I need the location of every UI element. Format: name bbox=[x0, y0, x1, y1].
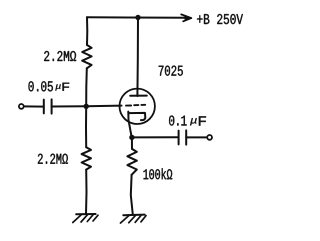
terminal output circle bbox=[207, 135, 212, 140]
label C2 value 0.1uF bbox=[169, 116, 206, 126]
power arrow to +B bbox=[181, 14, 191, 21]
tube U1 grid dashes bbox=[126, 104, 145, 107]
capacitor C1 0.05uF plates bbox=[44, 99, 52, 113]
wire input terminal to C1 bbox=[24, 105, 44, 107]
wire cathode junction to C2 bbox=[132, 136, 179, 138]
wire C1 to input junction bbox=[52, 105, 87, 107]
wire left vertical from rail to R1 bbox=[86, 17, 88, 45]
wire R1 bottom to input junction bbox=[85, 68, 88, 106]
wire top supply rail bbox=[87, 16, 188, 19]
wire cathode lead down to junction bbox=[128, 112, 131, 138]
ground G2 hatching bbox=[121, 215, 147, 223]
resistor R2 2.2M lower zigzag bbox=[82, 147, 91, 169]
label R2 value 2.2M bbox=[38, 154, 68, 164]
tube U1 cathode bar and hook bbox=[128, 113, 145, 120]
ground G2 bar bbox=[123, 214, 144, 217]
label R1 value 2.2M bbox=[44, 51, 76, 61]
wire cathode junction to R3 bbox=[131, 137, 133, 149]
ground G1 hatching bbox=[73, 215, 98, 223]
resistor R3 100k zigzag bbox=[127, 149, 136, 175]
label tube type 7025 bbox=[159, 66, 183, 76]
ground G1 bar bbox=[76, 213, 95, 215]
wire R3 bottom to ground bbox=[131, 175, 133, 215]
wire input junction to grid bbox=[86, 105, 121, 108]
tube U1 plate bar bbox=[130, 95, 147, 97]
terminal input circle bbox=[19, 104, 24, 109]
label +B 250V bbox=[197, 14, 243, 24]
node cathode junction dot bbox=[129, 135, 134, 140]
node supply junction dot bbox=[135, 15, 140, 20]
label R3 value 100k bbox=[144, 168, 173, 179]
node input junction dot bbox=[84, 104, 89, 109]
wire plate lead from rail down into tube bbox=[136, 18, 139, 97]
tube U1 envelope circle bbox=[120, 89, 155, 124]
capacitor C2 0.1uF plates bbox=[179, 130, 187, 144]
label C1 value 0.05uF bbox=[29, 81, 70, 91]
resistor R1 2.2M upper zigzag bbox=[82, 45, 91, 68]
wire input junction down to R2 bbox=[85, 106, 87, 147]
wire R2 bottom to ground bbox=[85, 170, 88, 214]
wire C2 to output terminal bbox=[186, 136, 206, 138]
